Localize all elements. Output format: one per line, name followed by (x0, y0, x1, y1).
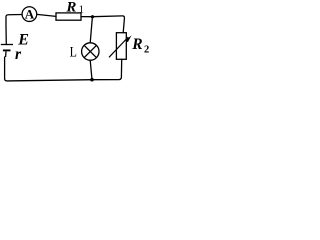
resistor R1 (56, 0, 84, 20)
wire R1 to node (81, 16, 93, 18)
battery E r (1, 27, 29, 63)
svg-text:A: A (25, 6, 35, 21)
svg-text:R: R (131, 36, 142, 53)
svg-text:L: L (70, 43, 77, 59)
wire node down to lamp (90, 17, 92, 43)
svg-text:r: r (15, 46, 22, 63)
wire bottom (5, 57, 92, 81)
wire ammeter to R1 (37, 14, 56, 16)
ammeter A (22, 6, 37, 21)
rheostat R2 (109, 33, 149, 60)
wire lamp to bottom node (90, 60, 92, 79)
svg-text:2: 2 (144, 45, 149, 56)
svg-text:R: R (65, 0, 76, 16)
node junction dot top (91, 15, 94, 18)
wire node to top-right corner and down (93, 16, 125, 33)
svg-text:1: 1 (79, 4, 84, 15)
wire top-left horizontal (6, 15, 22, 28)
wire R2 to bottom-right corner (92, 59, 122, 79)
lamp L (70, 43, 99, 60)
node junction dot bottom (90, 78, 94, 82)
